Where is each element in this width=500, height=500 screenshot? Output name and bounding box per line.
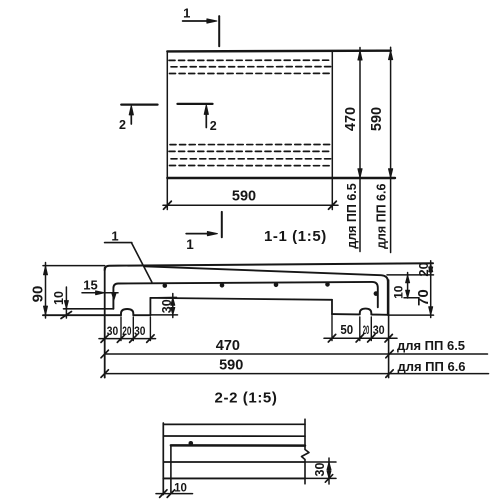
right edge extension down through dims (388, 280, 390, 378)
svg-text:10: 10 (392, 285, 406, 299)
bottom edge left part with drip notch, + extension left to 90-dim (43, 309, 150, 315)
bottom line (163, 477, 305, 479)
svg-text:30: 30 (313, 463, 327, 477)
left edge (162, 423, 164, 495)
svg-text:10: 10 (52, 291, 66, 305)
callout label 1 leader (105, 243, 152, 282)
dim 590 under plan (163, 201, 338, 209)
slab plan top edge (167, 50, 390, 53)
thin bottom line (150, 298, 332, 300)
section marker 1, top: arrow (183, 16, 220, 46)
svg-text:590: 590 (369, 107, 385, 131)
second line (163, 435, 305, 437)
section marker 2, right (178, 104, 213, 128)
section marker 2, left (121, 105, 157, 124)
step down at right (331, 300, 333, 314)
svg-text:2: 2 (119, 118, 126, 132)
dims right: extension from inner corner level (387, 274, 434, 276)
svg-text:20: 20 (416, 262, 431, 276)
dim line 30/20/30 left (99, 335, 156, 343)
svg-text:1: 1 (186, 237, 194, 252)
dim 20 / 70 right vertical (389, 261, 434, 318)
svg-text:470: 470 (216, 338, 240, 354)
step up to thin bottom (149, 298, 151, 315)
svg-text:2-2 (1:5): 2-2 (1:5) (215, 390, 278, 407)
svg-text:30: 30 (134, 324, 146, 338)
svg-text:20: 20 (122, 324, 131, 338)
svg-text:для ПП 6.5: для ПП 6.5 (397, 338, 465, 353)
slab profile: outer top (back) edge line (105, 263, 433, 270)
dim 90 left (43, 263, 105, 319)
extension lines 30/20/30 cluster left (121, 317, 150, 341)
slab profile: front top sloping edge (144, 266, 388, 315)
inner vertical at 10 offset (170, 445, 172, 492)
svg-text:2: 2 (210, 119, 217, 133)
slab plan bottom edge (167, 177, 395, 179)
dim 10 right (thickness 40 zone) (404, 273, 419, 299)
svg-text:для ПП 6.6: для ПП 6.6 (397, 359, 465, 374)
fourth line (163, 461, 305, 463)
svg-text:30: 30 (373, 323, 385, 337)
dim 15 (82, 291, 118, 300)
lip bottom line + extension to 10-dim (64, 308, 114, 310)
bottom edge right part with drip notch (332, 309, 388, 315)
svg-text:1-1 (1:5): 1-1 (1:5) (264, 228, 327, 245)
svg-text:590: 590 (232, 188, 256, 204)
slab plan right edge (with extension down) (331, 51, 333, 210)
dim 10 bottom of section 2-2 (156, 490, 193, 498)
right edge with break symbol (302, 419, 310, 484)
svg-text:50: 50 (340, 323, 353, 337)
dim 30 at step1 (150, 294, 177, 318)
svg-text:для ПП 6.5: для ПП 6.5 (345, 183, 359, 249)
svg-text:для ПП 6.6: для ПП 6.6 (375, 184, 389, 250)
svg-text:30: 30 (160, 299, 174, 313)
left edge of slab with extension through dimension lines below (104, 268, 106, 378)
rebar dots on step surface (163, 283, 168, 288)
svg-text:20: 20 (363, 323, 370, 337)
long dim line 470 (для ПП 6.5) (101, 350, 488, 358)
extension lines 50/20/30 cluster right (332, 316, 371, 341)
svg-text:470: 470 (343, 107, 359, 131)
rebar dot at right lip (374, 291, 379, 296)
dim line 50/20/30 right (324, 334, 397, 342)
svg-text:70: 70 (415, 289, 432, 306)
section marker 1, bottom: arrow (186, 212, 222, 237)
dim 10 left (61, 287, 72, 319)
svg-text:1: 1 (111, 229, 118, 244)
svg-text:90: 90 (29, 286, 46, 303)
svg-text:590: 590 (219, 357, 243, 373)
svg-text:30: 30 (107, 324, 119, 338)
slab profile: step surface with left and right drip lips (113, 282, 377, 309)
long dim line 590 (для ПП 6.6) (101, 370, 489, 378)
svg-text:1: 1 (183, 6, 190, 21)
svg-text:10: 10 (174, 483, 187, 495)
dim 30 right of section 2-2 (305, 458, 336, 484)
rebar dot (189, 441, 194, 446)
dashed reinforcement lines, bottom band (169, 145, 332, 166)
top line (163, 423, 305, 425)
thick middle line (171, 444, 305, 447)
svg-text:15: 15 (83, 277, 97, 292)
right vertical dims of plan: 470 / 590 lines (358, 47, 393, 252)
slab plan left edge (with extension down to 590 dim) (166, 51, 168, 209)
dashed reinforcement lines, top band (169, 60, 332, 73)
